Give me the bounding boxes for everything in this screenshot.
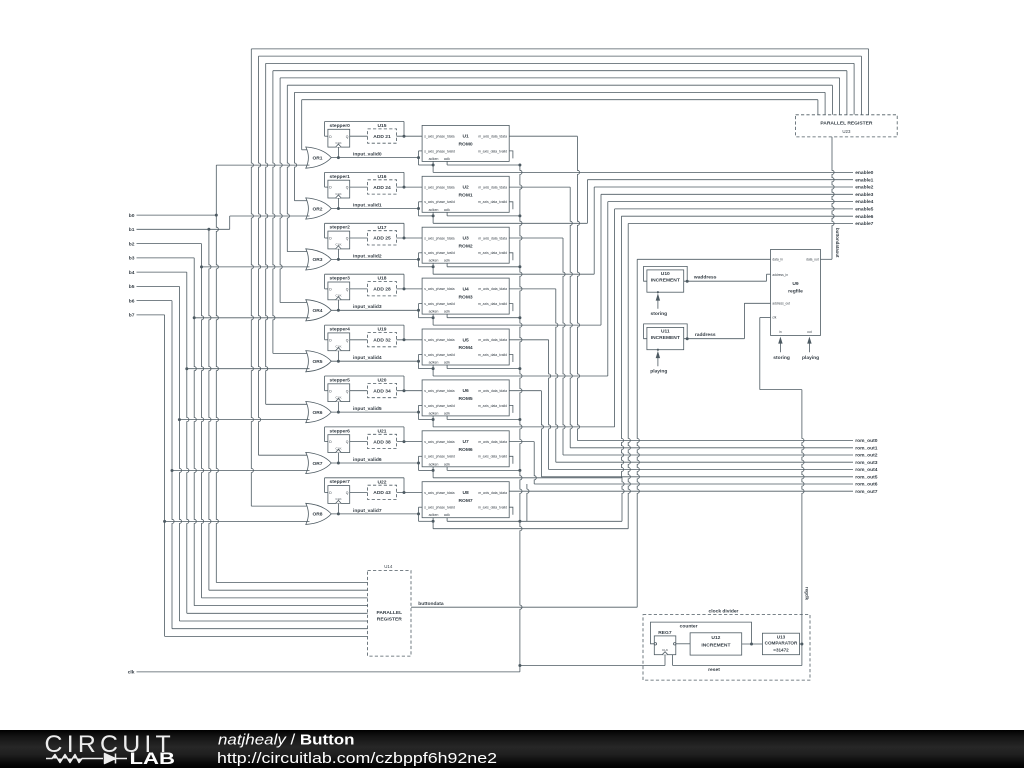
wire enable5 bbox=[615, 208, 853, 210]
node b2 branch bbox=[200, 265, 203, 268]
wire REG7 to U12 bbox=[676, 643, 690, 645]
wire rom_out4 routing bbox=[509, 339, 548, 341]
or-gate OR1 bbox=[306, 147, 332, 168]
svg-text:U12: U12 bbox=[711, 635, 720, 641]
wire b7 bbox=[137, 314, 165, 316]
node clk bus row 4 bbox=[518, 367, 521, 370]
wire tvalid wrap row 3 bbox=[418, 304, 420, 318]
svg-text:ADD 32: ADD 32 bbox=[373, 338, 391, 344]
wire aclk row 5 bbox=[446, 416, 448, 420]
svg-text:input_valid2: input_valid2 bbox=[353, 253, 382, 259]
svg-text:s_axis_phase_tdata: s_axis_phase_tdata bbox=[424, 491, 454, 495]
wire U14 pin 5 bbox=[179, 620, 367, 622]
or-gate OR2 bbox=[306, 198, 332, 219]
svg-text:OR8: OR8 bbox=[312, 512, 322, 518]
wire tvalid wrap row 7 bbox=[418, 507, 420, 521]
wire rom_out3 routing bbox=[509, 288, 556, 290]
wire tvalid wrap row 4 bbox=[418, 355, 420, 369]
wire rom_out0 vertical bbox=[577, 136, 579, 440]
or-gate OR8 bbox=[306, 503, 332, 524]
svg-text:REG7: REG7 bbox=[658, 630, 672, 636]
svg-text:aclk: aclk bbox=[444, 513, 450, 517]
wire aclk row 4 bbox=[446, 365, 448, 369]
svg-text:counter: counter bbox=[680, 624, 698, 630]
wire bus vertical 0 bbox=[251, 49, 253, 506]
wire enable3 riser bbox=[600, 194, 602, 325]
wire enable7 h-run row 7 bbox=[433, 528, 628, 530]
node aclken row 0 bbox=[432, 164, 435, 167]
svg-text:ROM4: ROM4 bbox=[459, 345, 473, 351]
svg-text:enable6: enable6 bbox=[855, 214, 873, 220]
svg-text:OR2: OR2 bbox=[312, 206, 322, 212]
svg-text:U21: U21 bbox=[378, 428, 387, 434]
svg-text:U1: U1 bbox=[462, 134, 469, 140]
svg-text:raddress: raddress bbox=[695, 332, 716, 338]
svg-text:s_axis_phase_tvalid: s_axis_phase_tvalid bbox=[424, 251, 455, 255]
wire rom_out1 vertical bbox=[570, 187, 572, 448]
node stepper4 feedback junction bbox=[403, 338, 406, 341]
wire input_valid6 bbox=[331, 462, 418, 464]
wire OR5 upper input bbox=[273, 352, 310, 354]
svg-text:out: out bbox=[807, 330, 812, 334]
node input_valid4 wrap junction bbox=[417, 360, 420, 363]
net reset bbox=[801, 644, 803, 666]
svg-text:m_axis_data_tdata: m_axis_data_tdata bbox=[478, 185, 507, 189]
svg-text:rom_out5: rom_out5 bbox=[855, 474, 878, 480]
wire rom_out6 vertical bbox=[534, 442, 536, 484]
wire OR1 lower input bbox=[216, 164, 309, 166]
svg-text:U20: U20 bbox=[378, 378, 387, 384]
node stepper6 feedback junction bbox=[403, 440, 406, 443]
wire aclk row 7 bbox=[446, 518, 448, 522]
svg-text:Q: Q bbox=[346, 135, 349, 139]
wire b6 vertical bbox=[172, 301, 174, 629]
wire CLK stepper1 bbox=[337, 198, 339, 209]
wire Q to ADD bbox=[350, 492, 368, 494]
svg-text:CLK: CLK bbox=[335, 446, 342, 450]
svg-text:U8: U8 bbox=[462, 490, 469, 496]
svg-text:playing: playing bbox=[650, 369, 667, 375]
svg-text:rom_out2: rom_out2 bbox=[855, 453, 878, 459]
wire bus vertical 5 bbox=[287, 85, 289, 251]
svg-text:PARALLEL: PARALLEL bbox=[376, 610, 402, 616]
svg-text:U17: U17 bbox=[378, 225, 387, 231]
wire bus vertical 1 bbox=[259, 56, 261, 455]
wire top bus 0 bbox=[251, 48, 868, 50]
node clk junction bbox=[518, 664, 521, 667]
svg-text:ADD 34: ADD 34 bbox=[373, 388, 391, 394]
wire U14 pin 0 bbox=[216, 582, 367, 584]
wire U23 top pin 6 bbox=[824, 92, 826, 114]
node clk bus row 7 bbox=[518, 520, 521, 523]
logo resistor and diode symbol bbox=[46, 754, 127, 764]
wire U14 pin 6 bbox=[172, 628, 368, 630]
svg-text:aclk: aclk bbox=[444, 310, 450, 314]
wire tvalid wrap row 1 bbox=[418, 202, 420, 216]
wire bus vertical 2 bbox=[266, 63, 268, 404]
node clk bus row 6 bbox=[518, 469, 521, 472]
wire OR7 lower input bbox=[172, 470, 310, 472]
svg-text:ADD 21: ADD 21 bbox=[373, 134, 391, 140]
adder U20 bbox=[368, 383, 397, 397]
wire CLK stepper7 bbox=[337, 503, 339, 514]
node input_valid7 wrap junction bbox=[417, 512, 420, 515]
wire aclken row 3 bbox=[432, 314, 434, 325]
wire Q to ADD bbox=[350, 237, 368, 239]
svg-text:CLK: CLK bbox=[335, 141, 342, 145]
wire OR8 upper input bbox=[251, 505, 309, 507]
node aclken row 6 bbox=[432, 469, 435, 472]
wire enable4 riser bbox=[607, 202, 609, 376]
wire stepper7 feedback top bbox=[325, 477, 404, 479]
wire top bus 3 bbox=[273, 70, 847, 72]
wire enable0 h-run row 0 bbox=[433, 171, 853, 173]
wire b2 vertical bbox=[202, 244, 204, 598]
svg-text:U15: U15 bbox=[378, 123, 387, 129]
or-gate OR4 bbox=[306, 300, 332, 321]
adder U21 bbox=[368, 434, 397, 448]
svg-text:aclk: aclk bbox=[444, 157, 450, 161]
svg-text:data_in: data_in bbox=[772, 258, 783, 262]
wire enable1 riser bbox=[586, 180, 588, 224]
wire tvalid wrap row 6 bbox=[418, 456, 420, 470]
svg-text:LAB: LAB bbox=[130, 750, 176, 768]
wire input_valid3 bbox=[331, 309, 418, 311]
svg-text:s_axis_phase_tvalid: s_axis_phase_tvalid bbox=[424, 404, 455, 408]
wire input_valid2 bbox=[331, 258, 418, 260]
ROM U2 bbox=[422, 176, 509, 212]
wire stepper0 feedback top bbox=[325, 121, 404, 123]
svg-text:stepper7: stepper7 bbox=[330, 479, 351, 485]
svg-text:ROM3: ROM3 bbox=[459, 294, 473, 300]
svg-text:m_axis_data_tdata: m_axis_data_tdata bbox=[478, 287, 507, 291]
wire rom_out4 vertical bbox=[549, 340, 551, 470]
svg-text:m_axis_data_tvalid: m_axis_data_tvalid bbox=[478, 353, 507, 357]
flip-flop stepper4 bbox=[328, 333, 350, 351]
flag storing U9 bbox=[779, 343, 781, 352]
wire aclken row 5 bbox=[432, 416, 434, 427]
wire stepper3 feedback top bbox=[325, 273, 404, 275]
flip-flop stepper6 bbox=[328, 435, 350, 453]
wire U23 top pin 1 bbox=[860, 56, 862, 115]
ROM U7 bbox=[422, 431, 509, 467]
wire aclk row 1 bbox=[446, 212, 448, 216]
svg-text:buttondataout: buttondataout bbox=[835, 228, 840, 258]
adder U22 bbox=[368, 485, 397, 499]
wire b0 bbox=[137, 214, 217, 216]
svg-text:s_axis_phase_tvalid: s_axis_phase_tvalid bbox=[424, 455, 455, 459]
wire enable1 bbox=[587, 179, 853, 181]
wire rom_out7 routing bbox=[509, 490, 853, 492]
net buttondata bbox=[411, 606, 637, 608]
wire OR3 lower input bbox=[202, 266, 310, 268]
svg-text:b4: b4 bbox=[129, 270, 135, 276]
svg-text:aclken: aclken bbox=[429, 259, 439, 263]
svg-text:regfile: regfile bbox=[788, 289, 803, 295]
svg-text:=31472: =31472 bbox=[773, 647, 789, 652]
flip-flop stepper0 bbox=[328, 129, 350, 147]
svg-text:U22: U22 bbox=[378, 479, 387, 485]
svg-text:INCREMENT: INCREMENT bbox=[651, 278, 680, 284]
wire b6 bbox=[137, 300, 173, 302]
svg-text:U11: U11 bbox=[661, 328, 670, 334]
svg-text:stepper3: stepper3 bbox=[330, 276, 351, 282]
wire b1 vertical bbox=[209, 229, 211, 590]
wire CLK stepper5 bbox=[337, 402, 339, 413]
wire enable1 h-run row 1 bbox=[433, 222, 587, 224]
ROM U3 bbox=[422, 227, 509, 263]
or-gate OR7 bbox=[306, 452, 332, 473]
wire stepper4 feedback top bbox=[325, 324, 404, 326]
svg-text:U14: U14 bbox=[384, 564, 393, 569]
wire Q to ADD bbox=[350, 288, 368, 290]
wire b5 vertical bbox=[179, 286, 181, 621]
ROM U8 bbox=[422, 482, 509, 518]
wire b3 bbox=[137, 257, 195, 259]
svg-text:stepper4: stepper4 bbox=[330, 327, 351, 333]
svg-text:CLK: CLK bbox=[335, 345, 342, 349]
node b4 branch bbox=[185, 367, 188, 370]
node input_valid5 wrap junction bbox=[417, 411, 420, 414]
wire clk to REG7 bbox=[520, 665, 665, 667]
svg-text:CLK: CLK bbox=[335, 497, 342, 501]
or-gate OR3 bbox=[306, 249, 332, 270]
wire b7 vertical bbox=[164, 315, 166, 637]
wire ADD to ROM bbox=[397, 135, 423, 137]
wire tvalid wrap row 2 bbox=[418, 253, 420, 267]
svg-text:U2: U2 bbox=[462, 185, 469, 191]
node b0 junction bbox=[215, 214, 218, 217]
svg-text:regclk: regclk bbox=[804, 587, 809, 600]
wire aclken row 1 bbox=[432, 212, 434, 223]
svg-text:b2: b2 bbox=[129, 241, 135, 247]
node stepper1 feedback junction bbox=[403, 186, 406, 189]
wire aclk row 3 bbox=[446, 314, 448, 318]
node U10 out bbox=[686, 280, 689, 283]
or-gate OR6 bbox=[306, 402, 332, 423]
wire CLK stepper2 bbox=[337, 249, 339, 260]
svg-text:waddress: waddress bbox=[693, 275, 717, 281]
svg-text:CLK: CLK bbox=[335, 192, 342, 196]
net raddress bbox=[687, 338, 744, 340]
node input_valid4 clk junction bbox=[337, 360, 340, 363]
wire rom_out1 routing bbox=[509, 186, 570, 188]
wire input_valid7 bbox=[331, 513, 418, 515]
svg-text:enable3: enable3 bbox=[855, 192, 873, 198]
wire ADD to ROM bbox=[397, 237, 423, 239]
wire b1 bbox=[137, 228, 230, 230]
svg-text:http://circuitlab.com/czbppf6h: http://circuitlab.com/czbppf6h92ne2 bbox=[217, 750, 497, 767]
wire aclken row 2 bbox=[432, 263, 434, 274]
node stepper2 feedback junction bbox=[403, 237, 406, 240]
wire REG7 clk riser bbox=[664, 655, 666, 666]
node input_valid1 wrap junction bbox=[417, 207, 420, 210]
node b3 branch bbox=[193, 316, 196, 319]
svg-text:s_axis_phase_tvalid: s_axis_phase_tvalid bbox=[424, 302, 455, 306]
wire enable3 h-run row 3 bbox=[433, 324, 601, 326]
svg-text:m_axis_data_tvalid: m_axis_data_tvalid bbox=[478, 302, 507, 306]
svg-text:INCREMENT: INCREMENT bbox=[701, 643, 730, 649]
svg-text:ADD 38: ADD 38 bbox=[373, 439, 391, 445]
wire OR4 lower input bbox=[194, 317, 309, 319]
svg-text:reset: reset bbox=[708, 667, 720, 673]
svg-text:U10: U10 bbox=[661, 271, 670, 277]
wire OR6 lower input bbox=[179, 419, 309, 421]
svg-text:m_axis_data_tvalid: m_axis_data_tvalid bbox=[478, 200, 507, 204]
svg-text:address_out: address_out bbox=[772, 301, 790, 305]
adder U18 bbox=[368, 282, 397, 296]
wire bus vertical 4 bbox=[280, 78, 282, 303]
svg-text:storing: storing bbox=[773, 355, 790, 361]
wire top bus 6 bbox=[295, 91, 826, 93]
svg-text:aclken: aclken bbox=[429, 157, 439, 161]
node input_valid6 clk junction bbox=[337, 462, 340, 465]
svg-text:b5: b5 bbox=[129, 284, 135, 290]
wire aclk row 0 bbox=[446, 161, 448, 165]
wire OR1 upper input bbox=[302, 149, 310, 151]
svg-text:s_axis_phase_tdata: s_axis_phase_tdata bbox=[424, 338, 454, 342]
node aclken row 3 bbox=[432, 316, 435, 319]
node input_valid6 wrap junction bbox=[417, 462, 420, 465]
wire enable3 bbox=[601, 193, 853, 195]
flip-flop stepper7 bbox=[328, 486, 350, 504]
wire aclken row 7 bbox=[432, 518, 434, 529]
svg-text:stepper5: stepper5 bbox=[330, 377, 351, 383]
increment U11 bbox=[644, 324, 688, 339]
svg-text:enable1: enable1 bbox=[855, 177, 873, 183]
wire enable7 bbox=[628, 223, 853, 225]
svg-text:stepper6: stepper6 bbox=[330, 428, 351, 434]
node aclken row 7 bbox=[432, 520, 435, 523]
wire OR7 upper input bbox=[259, 454, 310, 456]
svg-text:aclken: aclken bbox=[429, 361, 439, 365]
wire b3 vertical bbox=[194, 258, 196, 606]
svg-text:OR4: OR4 bbox=[312, 308, 322, 314]
svg-text:b7: b7 bbox=[129, 313, 135, 319]
wire U23 top pin 5 bbox=[831, 85, 833, 115]
flag playing U9 bbox=[808, 343, 810, 352]
svg-text:U16: U16 bbox=[378, 174, 387, 180]
wire U14 pin 1 bbox=[209, 589, 368, 591]
wire counter feedback bbox=[651, 622, 752, 644]
wire enable6 h-run row 6 bbox=[433, 477, 621, 479]
flip-flop stepper3 bbox=[328, 282, 350, 300]
wire CLK stepper6 bbox=[337, 453, 339, 464]
wire m_axis_data_tvalid stub row 6 bbox=[509, 456, 513, 464]
svg-text:aclk: aclk bbox=[444, 462, 450, 466]
svg-text:b3: b3 bbox=[129, 256, 135, 262]
svg-text:ROM5: ROM5 bbox=[459, 396, 473, 402]
wire top bus 2 bbox=[266, 62, 854, 64]
wire Q to ADD bbox=[350, 135, 368, 137]
wire rom_out5 vertical bbox=[541, 391, 543, 477]
wire CLK stepper3 bbox=[337, 300, 339, 311]
wire stepper2 feedback top bbox=[325, 222, 404, 224]
svg-text:U13: U13 bbox=[777, 634, 786, 639]
ROM U4 bbox=[422, 278, 509, 314]
svg-text:ROM2: ROM2 bbox=[459, 243, 473, 249]
wire Q to ADD bbox=[350, 441, 368, 443]
adder U17 bbox=[368, 231, 397, 245]
svg-text:U3: U3 bbox=[462, 236, 469, 242]
wire rom_out2 vertical bbox=[563, 238, 565, 455]
svg-text:U6: U6 bbox=[462, 388, 469, 394]
svg-text:clk: clk bbox=[772, 316, 776, 320]
svg-text:m_axis_data_tvalid: m_axis_data_tvalid bbox=[478, 149, 507, 153]
register U14 bbox=[368, 571, 411, 657]
wire b4 bbox=[137, 271, 187, 273]
svg-text:rom_out4: rom_out4 bbox=[855, 467, 878, 473]
svg-text:aclk: aclk bbox=[444, 259, 450, 263]
adder U15 bbox=[368, 129, 397, 143]
wire ADD to ROM bbox=[397, 441, 423, 443]
wire rom_out6 routing bbox=[509, 441, 534, 443]
wire Q to ADD bbox=[350, 339, 368, 341]
svg-text:aclken: aclken bbox=[429, 310, 439, 314]
svg-text:COMPARATOR: COMPARATOR bbox=[765, 641, 798, 646]
wire input_valid5 bbox=[331, 411, 418, 413]
svg-text:s_axis_phase_tdata: s_axis_phase_tdata bbox=[424, 135, 454, 139]
svg-text:m_axis_data_tdata: m_axis_data_tdata bbox=[478, 389, 507, 393]
wire b4 vertical bbox=[187, 272, 189, 613]
wire b0 vertical bbox=[216, 165, 218, 582]
svg-text:OR7: OR7 bbox=[312, 461, 322, 467]
wire rom_out2 routing bbox=[509, 237, 563, 239]
svg-text:Q: Q bbox=[346, 338, 349, 342]
subcircuit clock divider bbox=[643, 615, 810, 681]
svg-text:m_axis_data_tdata: m_axis_data_tdata bbox=[478, 236, 507, 240]
svg-text:OR1: OR1 bbox=[312, 155, 322, 161]
svg-text:natjhealy / Button: natjhealy / Button bbox=[218, 733, 355, 749]
svg-text:Q: Q bbox=[346, 186, 349, 190]
wire ADD to ROM bbox=[397, 492, 423, 494]
wire OR2 upper input bbox=[295, 200, 310, 202]
svg-text:CLK: CLK bbox=[335, 294, 342, 298]
wire U12 to U13 bbox=[742, 643, 763, 645]
wire bus vertical 7 bbox=[301, 100, 303, 150]
regfile U9 bbox=[771, 250, 821, 336]
svg-text:ROM7: ROM7 bbox=[459, 498, 473, 504]
node input_valid5 clk junction bbox=[337, 411, 340, 414]
svg-text:aclken: aclken bbox=[429, 513, 439, 517]
node clk bus row 3 bbox=[518, 316, 521, 319]
svg-text:OR6: OR6 bbox=[312, 410, 322, 416]
svg-text:m_axis_data_tvalid: m_axis_data_tvalid bbox=[478, 251, 507, 255]
svg-text:U7: U7 bbox=[462, 439, 469, 445]
node aclken row 1 bbox=[432, 214, 435, 217]
node b1 junction bbox=[207, 228, 210, 231]
svg-text:ROM0: ROM0 bbox=[459, 142, 473, 148]
svg-text:b6: b6 bbox=[129, 298, 135, 304]
svg-text:s_axis_phase_tdata: s_axis_phase_tdata bbox=[424, 389, 454, 393]
wire enable2 h-run row 2 bbox=[433, 273, 594, 275]
node clk bus row 0 bbox=[518, 164, 521, 167]
svg-text:s_axis_phase_tdata: s_axis_phase_tdata bbox=[424, 236, 454, 240]
wire input_valid1 bbox=[331, 208, 418, 210]
svg-text:address_in: address_in bbox=[772, 273, 788, 277]
wire rom_out5 routing bbox=[509, 390, 541, 392]
wire OR4 upper input bbox=[280, 302, 309, 304]
node input_valid3 clk junction bbox=[337, 309, 340, 312]
wire rom_out0 routing bbox=[509, 135, 577, 137]
wire m_axis_data_tvalid stub row 7 bbox=[509, 507, 513, 515]
wire stepper6 feedback top bbox=[325, 426, 404, 428]
wire aclken row 6 bbox=[432, 467, 434, 478]
node aclken row 2 bbox=[432, 265, 435, 268]
wire OR8 lower input bbox=[165, 520, 310, 522]
node input_valid2 wrap junction bbox=[417, 258, 420, 261]
flag storing U10 bbox=[657, 300, 659, 309]
